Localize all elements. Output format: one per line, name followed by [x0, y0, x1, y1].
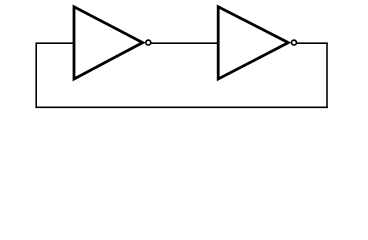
inverter U2 output bubble: [292, 40, 297, 45]
wire: U2 output bubble to right corner: [297, 42, 328, 44]
wire: left vertical feedback segment: [35, 42, 37, 107]
inverter U1 triangle: [74, 7, 143, 79]
wire: U1 output to U2 input: [151, 42, 218, 44]
wire: input wire from feedback loop to inverter U1: [36, 42, 73, 44]
inverter U1 output bubble: [146, 40, 151, 45]
wire: right vertical segment from U2 output down to feedback: [326, 43, 328, 108]
inverter U2 triangle: [218, 7, 288, 79]
wire: bottom horizontal feedback segment: [35, 106, 327, 108]
